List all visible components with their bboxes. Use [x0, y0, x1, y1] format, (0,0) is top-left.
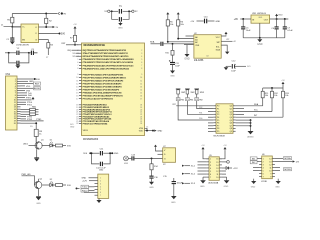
svg-text:P4: P4	[217, 117, 219, 119]
svg-text:9: 9	[141, 74, 142, 76]
net arrow WH3	[182, 182, 184, 184]
svg-text:Q1: Q1	[230, 108, 232, 110]
svg-text:Q4: Q4	[230, 117, 232, 119]
svg-text:10uF: 10uF	[231, 71, 236, 73]
wire U4 gnd pins	[236, 126, 251, 131]
svg-text:5: 5	[77, 59, 78, 61]
svg-text:PTC0/SCL1/ADC1P16/TPM3CH2: PTC0/SCL1/ADC1P16/TPM3CH2	[83, 98, 114, 101]
svg-text:GND: GND	[184, 58, 190, 61]
svg-text:10k: 10k	[274, 95, 277, 97]
svg-text:100uF: 100uF	[177, 182, 183, 184]
svg-text:10: 10	[216, 177, 218, 179]
svg-text:PB2: PB2	[199, 100, 202, 102]
wire U1 feedback pin	[39, 33, 60, 35]
svg-text:11: 11	[270, 167, 272, 169]
svg-text:5: 5	[100, 189, 101, 191]
svg-text:9: 9	[77, 74, 78, 76]
svg-text:SW2: SW2	[191, 92, 195, 94]
mcu U3 pin rows group D	[76, 104, 142, 126]
capacitor C7	[284, 19, 286, 27]
ground under C15	[171, 196, 177, 199]
wire J1 input	[4, 26, 22, 28]
svg-text:3: 3	[141, 53, 142, 55]
wire crystal loop	[112, 11, 119, 19]
net arrow WH2	[182, 173, 184, 175]
resistor network RN2	[21, 111, 30, 113]
ground below regulator	[259, 38, 261, 40]
svg-text:10: 10	[140, 77, 142, 79]
resistor R6	[177, 15, 179, 19]
svg-text:LED1: LED1	[23, 144, 29, 146]
net arrow +12V right of U6	[293, 160, 295, 162]
wire SW1 to U4	[178, 101, 213, 120]
svg-text:AGND: AGND	[247, 136, 254, 139]
svg-text:VDD: VDD	[139, 131, 144, 133]
wire +9V top rail	[12, 13, 57, 15]
svg-text:U1 MC33375: U1 MC33375	[16, 45, 30, 47]
regulator VR1	[251, 15, 270, 23]
microcontroller U3	[82, 43, 145, 136]
resistor R5	[167, 15, 169, 19]
wire U4 right pin1 to R11	[236, 105, 263, 107]
svg-text:14: 14	[76, 89, 78, 91]
svg-text:5V0: 5V0	[61, 34, 66, 36]
svg-text:GND: GND	[258, 17, 263, 19]
svg-text:13: 13	[269, 161, 271, 163]
net label box TxD2	[81, 185, 89, 188]
svg-text:26: 26	[76, 123, 78, 125]
wire U4 extra left stubs	[208, 112, 213, 132]
svg-text:Q2: Q2	[40, 179, 43, 181]
ground under Q2	[38, 189, 40, 197]
svg-text:7: 7	[263, 176, 264, 178]
svg-text:R15: R15	[165, 52, 168, 54]
svg-text:X1: X1	[72, 53, 74, 55]
wire U1 output to node 5V0	[39, 26, 53, 28]
svg-text:10uF: 10uF	[175, 66, 180, 68]
svg-text:2: 2	[141, 50, 142, 52]
svg-text:SW3: SW3	[200, 92, 204, 94]
svg-text:PTB4/TPM2CH0/ADC1P12/MISO1/KBI: PTB4/TPM2CH0/ADC1P12/MISO1/KBI2P4	[83, 85, 123, 88]
svg-text:MCP23S08: MCP23S08	[214, 136, 226, 138]
svg-text:GND: GND	[275, 187, 280, 189]
svg-text:VDD: VDD	[26, 86, 31, 88]
wire U2 third pin to ground	[221, 45, 227, 52]
+5V arrow above reset pullup	[74, 28, 76, 30]
capacitor C5 electrolytic	[242, 19, 244, 27]
svg-text:8: 8	[77, 68, 78, 70]
resistor R8	[34, 129, 38, 136]
ground under Q1	[36, 149, 38, 158]
wire VSS pin to ground	[186, 45, 188, 54]
capacitor C1	[11, 27, 13, 38]
svg-text:PB2: PB2	[199, 107, 202, 109]
svg-text:+9V: +9V	[234, 19, 239, 21]
capacitor C6	[276, 19, 278, 27]
svg-text:P9: P9	[217, 131, 219, 133]
svg-text:12: 12	[140, 83, 142, 85]
svg-text:20: 20	[14, 123, 16, 125]
wire CN1 pin7	[21, 92, 28, 94]
ground right of U4	[248, 131, 254, 134]
transistor Q2	[35, 181, 42, 188]
svg-text:Q3: Q3	[230, 114, 232, 116]
svg-text:MTRB: MTRB	[284, 169, 291, 171]
capacitor C2 on XT loop	[9, 53, 17, 63]
mcu U3 pin rows group A	[77, 45, 81, 47]
wire CN1 pin2 gnd	[21, 80, 29, 82]
svg-text:4: 4	[263, 167, 264, 169]
svg-text:SDA: SDA	[150, 41, 155, 44]
wire CN1 pin5 BKGD	[21, 87, 34, 89]
svg-text:GND: GND	[216, 21, 221, 23]
svg-text:PTD1: PTD1	[27, 105, 33, 107]
svg-text:D1: D1	[50, 140, 52, 142]
svg-text:GND: GND	[200, 186, 205, 188]
+5V arrow at regulator output	[276, 17, 278, 19]
svg-text:GND: GND	[257, 43, 263, 46]
svg-text:PTA2/KBI1P2/SDA1/ADC1P2/TPM2CH: PTA2/KBI1P2/SDA1/ADC1P2/TPM2CH0/SPSCK2/T…	[83, 64, 135, 67]
svg-text:17: 17	[140, 98, 142, 100]
wire CN2 pin2 12V	[89, 180, 95, 182]
svg-text:GND: GND	[149, 187, 154, 189]
connector CN1 pin stubs	[17, 79, 21, 123]
svg-text:15: 15	[76, 92, 78, 94]
svg-text:Q5: Q5	[230, 120, 232, 122]
capacitor C13	[128, 157, 131, 159]
svg-text:2: 2	[210, 162, 211, 164]
svg-text:P0: P0	[217, 106, 219, 108]
resistor R9	[53, 145, 56, 147]
svg-text:RST: RST	[35, 83, 40, 85]
svg-text:PTB5: PTB5	[36, 119, 42, 121]
capacitor C11	[99, 151, 101, 155]
svg-text:PB0: PB0	[181, 100, 184, 102]
wire SW3 to U4	[197, 101, 214, 109]
wire below R4	[47, 48, 49, 55]
net label box SW1	[176, 98, 180, 101]
svg-text:6: 6	[77, 62, 78, 64]
wire CN1 to LED driver	[21, 123, 37, 129]
capacitor C12 loop	[92, 153, 100, 164]
svg-text:PB1: PB1	[190, 100, 193, 102]
ground under R14	[149, 182, 154, 185]
svg-text:13: 13	[140, 86, 142, 88]
wire INT to U4	[176, 105, 213, 107]
resistor R10	[53, 184, 56, 186]
svg-text:5: 5	[263, 170, 264, 172]
wire U1 top-left pin	[12, 26, 21, 28]
ground below C1	[11, 40, 13, 41]
svg-text:1: 1	[210, 159, 211, 161]
svg-text:PTB5/TPM2CH1/ADC1P13/SS1/KBI2P: PTB5/TPM2CH1/ADC1P13/SS1/KBI2P5	[83, 88, 120, 91]
net label box IN2	[250, 161, 257, 164]
svg-text:IRQ/TPMCLK/PTA6/KBI1P6/TPM2CH4: IRQ/TPMCLK/PTA6/KBI1P6/TPM2CH4/AD1P22	[83, 49, 127, 52]
svg-text:0.1uF: 0.1uF	[287, 30, 293, 32]
svg-text:8: 8	[270, 176, 271, 178]
svg-text:BKGD: BKGD	[34, 88, 41, 90]
wire CN1 pin short stubs	[21, 85, 26, 87]
wire U5 right lower stubs	[222, 170, 226, 172]
node XT junction	[28, 52, 30, 54]
svg-text:12: 12	[269, 164, 271, 166]
svg-text:14: 14	[140, 89, 142, 91]
svg-text:VSS: VSS	[195, 45, 200, 47]
svg-text:9: 9	[270, 173, 271, 175]
led D2	[42, 184, 50, 186]
svg-text:24LC256: 24LC256	[194, 60, 204, 62]
svg-text:11: 11	[76, 80, 78, 82]
svg-text:4: 4	[210, 168, 211, 170]
svg-text:7: 7	[77, 65, 78, 67]
svg-text:XTAL/PTA5/KBI1P5/TPM2CH3/ACMP1: XTAL/PTA5/KBI1P5/TPM2CH3/ACMP1O/AD1P21	[83, 52, 129, 55]
svg-text:5: 5	[141, 59, 142, 61]
ground under U5 left	[203, 176, 206, 178]
svg-text:GND: GND	[251, 187, 256, 189]
svg-text:GND: GND	[36, 203, 41, 205]
svg-text:P7: P7	[217, 125, 219, 127]
svg-text:10k: 10k	[285, 95, 288, 97]
svg-text:ULN2003A: ULN2003A	[208, 182, 219, 185]
svg-text:P1: P1	[217, 108, 219, 110]
svg-text:GND: GND	[157, 131, 162, 133]
resistor R15	[172, 43, 174, 45]
svg-text:7: 7	[100, 195, 101, 197]
+5V arrow above X2 module	[155, 146, 157, 148]
wire U4 right pin5 to R13	[236, 116, 283, 118]
wire U2 VCC to +5V	[221, 34, 226, 37]
capacitor C14	[151, 170, 153, 176]
svg-text:16: 16	[140, 95, 142, 97]
resistor R7 reset pullup	[74, 30, 76, 36]
svg-text:3: 3	[100, 183, 101, 185]
svg-text:C5: C5	[146, 127, 148, 129]
svg-text:P8: P8	[217, 128, 219, 130]
mcu U3 pin rows group B	[77, 49, 142, 70]
wire U6 left inputs	[257, 158, 259, 160]
svg-text:VCC: VCC	[216, 37, 221, 39]
wire Q1 base	[29, 145, 37, 147]
switch SW1	[176, 88, 181, 90]
wire U4 right stubs	[236, 108, 244, 110]
svg-text:PTB2/TPM1CH4/ADC1P10/SPSCK1/KB: PTB2/TPM1CH4/ADC1P10/SPSCK1/KBI2P2	[83, 79, 125, 82]
svg-text:GND: GND	[224, 186, 229, 188]
io expander U4	[216, 104, 233, 134]
wire CN2 pin1 gnd	[89, 177, 95, 179]
wire VR1 gnd pin	[259, 23, 261, 38]
svg-text:+12V: +12V	[233, 168, 238, 170]
svg-text:6: 6	[141, 62, 142, 64]
wire R5 to SDA pin	[168, 26, 194, 42]
svg-text:Q7: Q7	[230, 125, 232, 127]
diode D3	[222, 167, 226, 169]
wire CN1 pin10 arrow	[21, 99, 32, 101]
wire CN2 pin6	[84, 191, 95, 193]
node VIN junction	[11, 26, 13, 28]
wire SW2 to U4	[187, 101, 213, 115]
wire WP pin	[186, 35, 194, 37]
wire RST net	[66, 44, 79, 46]
svg-text:2: 2	[263, 161, 264, 163]
svg-text:4: 4	[141, 56, 142, 58]
ground below crystal loop	[17, 64, 19, 65]
+5V arrow above R5	[167, 13, 169, 15]
wire U2 WP out	[221, 40, 232, 42]
svg-text:6: 6	[210, 174, 211, 176]
wire CN1 pin3 RST	[21, 83, 34, 85]
svg-text:11: 11	[217, 174, 219, 176]
svg-text:Q9: Q9	[230, 131, 232, 133]
svg-text:MC9S08AW60CFGE: MC9S08AW60CFGE	[84, 44, 106, 47]
svg-text:11: 11	[140, 80, 142, 82]
svg-text:15: 15	[140, 92, 142, 94]
svg-text:P5: P5	[217, 120, 219, 122]
driver U5	[203, 150, 209, 159]
resistor R1	[11, 14, 13, 18]
svg-text:+12V: +12V	[82, 181, 88, 183]
+5V arrow above pullups	[282, 83, 284, 85]
svg-text:EXTAL/PTA4/KBI1P4/TPM2CH2/ACMP: EXTAL/PTA4/KBI1P4/TPM2CH2/ACMP1-/AD1P20	[83, 55, 130, 58]
svg-text:A2: A2	[234, 40, 236, 43]
wire U5 right pin2 circle	[222, 161, 227, 163]
capacitor C8 on SDA bus	[151, 43, 161, 45]
svg-text:D2: D2	[50, 179, 52, 181]
svg-text:14: 14	[269, 158, 271, 160]
wire XT rail end	[34, 52, 38, 54]
svg-text:PTB1/TPM1CH3/ADC1P9/RxD2/KBI2P: PTB1/TPM1CH3/ADC1P9/RxD2/KBI2P1/MISO1	[83, 76, 127, 79]
ground under U6 right	[277, 179, 279, 181]
resistor R13	[282, 88, 284, 91]
wire U6 right outputs	[275, 158, 283, 160]
svg-text:PTB7/ADC1P15/EXTAL2/KBI2P7/TPM: PTB7/ADC1P15/EXTAL2/KBI2P7/TPM3CH1	[83, 95, 124, 98]
wire IRQ net	[72, 49, 80, 51]
ground under U6 left	[253, 179, 255, 181]
svg-text:P2: P2	[217, 111, 219, 113]
svg-text:8: 8	[141, 68, 142, 70]
svg-text:MTRA: MTRA	[284, 157, 291, 160]
svg-text:Q2: Q2	[230, 111, 232, 113]
svg-text:6: 6	[263, 173, 264, 175]
svg-text:PTB3/TPM1CH5/ADC1P11/MOSI1/KBI: PTB3/TPM1CH5/ADC1P11/MOSI1/KBI2P3	[83, 82, 123, 85]
net label box IN1	[250, 157, 257, 160]
wire CN1 pin8	[21, 94, 28, 96]
svg-text:PB0: PB0	[199, 118, 202, 120]
wire U5 left inputs	[198, 162, 207, 174]
svg-text:12: 12	[76, 83, 78, 85]
svg-text:3: 3	[263, 164, 264, 166]
svg-text:PTA1/KBI1P1/TPM1CH1/ADC1P1/ACM: PTA1/KBI1P1/TPM1CH1/ADC1P1/ACMP1-/SCL2/M…	[83, 61, 134, 64]
svg-text:PTB6/ADC1P14/XTAL2/KBI2P6/TPM3: PTB6/ADC1P14/XTAL2/KBI2P6/TPM3CH0	[83, 91, 123, 94]
connector CN2 pin stubs	[95, 178, 98, 195]
svg-text:P6: P6	[217, 123, 219, 125]
svg-text:SW1: SW1	[181, 92, 185, 94]
svg-text:7: 7	[210, 177, 211, 179]
svg-text:13: 13	[216, 168, 218, 170]
svg-text:TxD2: TxD2	[82, 187, 88, 189]
svg-text:L293D: L293D	[261, 181, 268, 183]
op-amp U1	[21, 24, 39, 43]
svg-text:GND: GND	[118, 27, 123, 29]
svg-text:10: 10	[76, 77, 78, 79]
resistor R2	[45, 13, 47, 15]
svg-text:6: 6	[100, 192, 101, 194]
svg-text:GND: GND	[171, 202, 176, 204]
svg-text:PTB0/TPM1CH2/ADC1P8/TxD2/KBI2P: PTB0/TPM1CH2/ADC1P8/TxD2/KBI2P0/SS1	[83, 73, 125, 76]
net arrow WH1	[182, 165, 184, 167]
svg-text:VSS3: VSS3	[83, 130, 89, 132]
svg-text:GND: GND	[82, 178, 87, 180]
svg-text:10: 10	[269, 170, 271, 172]
svg-text:10uF: 10uF	[246, 30, 251, 32]
net label box RxD2	[81, 189, 89, 192]
ground under U5 right	[222, 176, 227, 178]
node right of crystal	[128, 10, 130, 12]
svg-text:GND: GND	[70, 126, 75, 128]
svg-text:SDA: SDA	[254, 103, 259, 106]
wire U4 right pin3 to R12	[236, 111, 272, 113]
capacitor C11 electrolytic	[172, 55, 174, 62]
+5V arrow above R6	[177, 13, 179, 15]
svg-text:16: 16	[216, 159, 218, 161]
svg-text:7: 7	[141, 65, 142, 67]
svg-text:Q6: Q6	[230, 123, 232, 125]
node left of crystal	[111, 10, 113, 12]
net label box MTRB	[284, 168, 292, 171]
resistor R11	[262, 88, 264, 91]
svg-text:PTE0/TxD1/TPM3CH0/SS4: PTE0/TxD1/TPM3CH0/SS4	[83, 122, 109, 125]
wire CN1 pin1 to 5V0	[21, 78, 35, 80]
ground under U2 left	[185, 54, 190, 57]
wire X2 vcc	[156, 148, 163, 151]
switch SW3	[194, 88, 199, 90]
svg-text:PTA3/KBI1P3/SCL1/ADC1P3/TPM2CH: PTA3/KBI1P3/SCL1/ADC1P3/TPM2CH1/SS2/RxD3	[83, 67, 130, 70]
switch SW2	[185, 88, 190, 90]
svg-text:PB1: PB1	[199, 113, 202, 115]
svg-text:2: 2	[100, 181, 101, 183]
wire regulator output	[270, 18, 289, 20]
capacitor C3 to XTAL out	[29, 52, 31, 54]
resistor R4	[39, 40, 49, 43]
net label box SW2	[186, 98, 190, 101]
svg-text:X2: X2	[72, 56, 74, 58]
ground left of C12	[224, 67, 229, 70]
resistor R14	[151, 157, 153, 159]
svg-text:15: 15	[216, 162, 218, 164]
svg-text:17: 17	[76, 98, 78, 100]
svg-text:3: 3	[210, 165, 211, 167]
resistor network RN3	[21, 113, 30, 115]
svg-text:12: 12	[216, 171, 218, 173]
svg-text:16: 16	[76, 95, 78, 97]
crystal Y1 plates	[118, 9, 120, 14]
ground stub under crystal	[119, 22, 121, 24]
svg-text:13: 13	[76, 86, 78, 88]
wire CN2 pin left dot	[76, 187, 78, 189]
svg-text:1: 1	[100, 178, 101, 180]
wire VSS to gnd arrow	[145, 130, 153, 132]
wire R6 to SCL pin	[178, 26, 194, 39]
svg-text:MC9S08AW60: MC9S08AW60	[83, 138, 99, 141]
resistor R12	[271, 88, 273, 91]
wire XTAL nets to crystal	[76, 52, 80, 54]
buzzer LS1	[124, 156, 129, 161]
ground under CN2	[98, 198, 100, 200]
wire pullup rail	[282, 85, 284, 88]
svg-text:5: 5	[210, 171, 211, 173]
svg-text:14: 14	[216, 165, 218, 167]
svg-text:IRQ: IRQ	[67, 50, 71, 52]
wire X2 data	[158, 153, 163, 155]
